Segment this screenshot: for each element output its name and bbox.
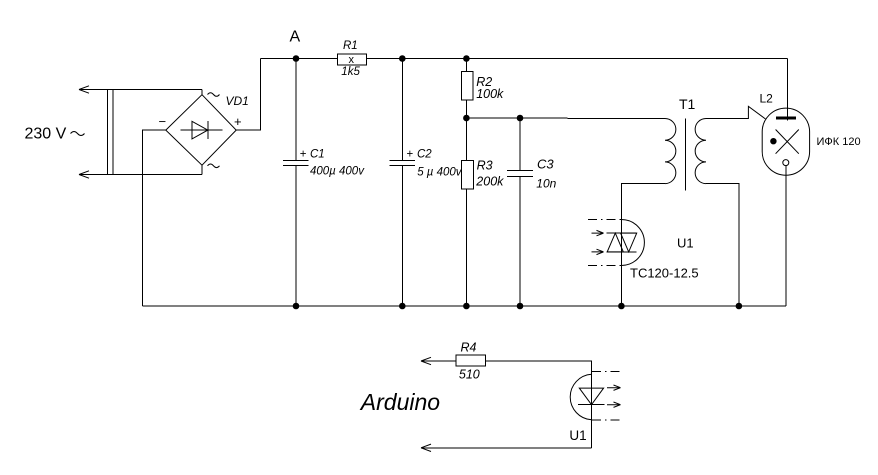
arrow Arduino bottom [421,444,431,451]
capacitor C3 [507,118,533,306]
junction dot R3 bottom [463,303,470,310]
svg-text:A: A [290,29,301,46]
svg-text:510: 510 [459,368,480,382]
junction dot T1 secondary bottom [736,303,743,310]
opto LED body arc [570,374,591,420]
svg-text:U1: U1 [677,235,694,250]
triac up triangle [607,233,623,252]
wire T1 primary bottom to triac [621,184,665,306]
wire T1 secondary bottom down [706,184,739,306]
svg-text:L2: L2 [760,91,774,105]
svg-text:ИФК 120: ИФК 120 [817,136,861,148]
svg-text:100k: 100k [476,87,504,101]
light arrow into triac upper [592,230,604,235]
svg-text:5 µ 400v: 5 µ 400v [417,166,463,178]
wire bottom rail [143,305,786,307]
wire AC top lead [79,89,202,91]
junction dot C1 bottom [293,303,300,310]
capacitor C2 [390,59,416,307]
svg-text:200k: 200k [475,175,504,189]
T1 core [684,119,686,191]
arrow AC top [79,86,89,93]
svg-text:C1: C1 [310,149,325,161]
triac top terminal line [606,232,636,234]
dash-dot optical axis top [592,371,623,373]
LED cathode line [578,404,605,406]
svg-text:+: + [407,149,414,161]
svg-text:C3: C3 [537,157,554,172]
junction dot R2 top [463,55,470,62]
dash-dot optical axis bottom [588,264,621,266]
transformer T1 primary winding [665,119,676,184]
node A dot [293,55,300,62]
svg-text:T1: T1 [679,96,696,112]
wire bridge minus output down [143,130,166,306]
svg-text:400µ 400v: 400µ 400v [310,165,365,177]
svg-text:1k5: 1k5 [341,66,360,78]
lamp cathode circle [783,160,789,166]
wire mid rail to transformer [466,117,665,120]
svg-text:+: + [234,114,242,129]
lamp filled dot [770,138,776,144]
junction dot C2 top [399,55,406,62]
junction dot triac bottom [618,303,625,310]
junction dot C3 top [517,115,524,122]
opto-triac U1 body arc [621,220,644,266]
resistor R4 [456,355,486,366]
svg-text:x: x [349,54,355,66]
LED triangle [579,388,603,405]
wire top rail left segment [261,58,338,60]
wire stub to bridge top corner [201,90,203,95]
wire bridge plus output up to top rail [236,59,260,131]
dash-dot optical axis bottom [592,419,623,421]
svg-text:R3: R3 [477,158,493,172]
triac down triangle [621,233,637,252]
wire AC bottom lead [79,174,202,176]
lamp anode electrode bar [776,117,796,120]
arrow Arduino top [421,357,431,364]
wire Arduino top lead [421,360,456,362]
resistor R1 [338,54,367,65]
diode symbol inside VD1 [181,121,223,139]
flash lamp L2 envelope [762,108,809,175]
bridge rectifier VD1 diamond [166,95,236,166]
svg-text:Arduino: Arduino [359,389,440,415]
capacitor C1 [283,59,309,307]
svg-text:+: + [300,149,307,161]
connector double bar [106,90,108,175]
tilde mark top AC corner [208,93,220,97]
lamp anode lead from top rail [787,59,789,121]
junction dot R2/R3 [463,115,470,122]
wire stub to bridge bottom corner [201,165,203,174]
triac bottom terminal line [606,251,636,253]
wire top rail middle [366,58,787,60]
svg-text:U1: U1 [569,428,586,443]
svg-text:−: − [159,114,167,129]
AC tilde mark [71,132,85,136]
light arrow into triac lower [592,249,604,254]
light arrow out upper [607,385,621,390]
wire lamp cathode down [785,166,787,306]
junction dot C2 bottom [399,303,406,310]
wire R4 to LED [485,361,591,448]
wire T1 secondary top to trigger [706,106,766,119]
transformer T1 secondary winding [695,119,706,184]
svg-text:230 V: 230 V [25,126,67,143]
resistor R2 [465,59,467,72]
svg-text:TC120-12.5: TC120-12.5 [630,266,699,281]
light arrow out lower [607,402,621,407]
resistor R3 [465,118,467,160]
svg-text:R4: R4 [461,340,477,354]
svg-text:VD1: VD1 [226,94,249,108]
dash-dot optical axis top [588,219,621,221]
svg-text:C2: C2 [417,149,432,161]
wire Arduino bottom lead [421,447,592,449]
junction dot C3 bottom [517,303,524,310]
arrow AC bottom [79,171,89,178]
tilde mark bottom AC corner [208,164,220,168]
lamp discharge X mark [776,130,799,154]
svg-text:10n: 10n [536,176,556,190]
svg-text:R1: R1 [343,40,358,52]
